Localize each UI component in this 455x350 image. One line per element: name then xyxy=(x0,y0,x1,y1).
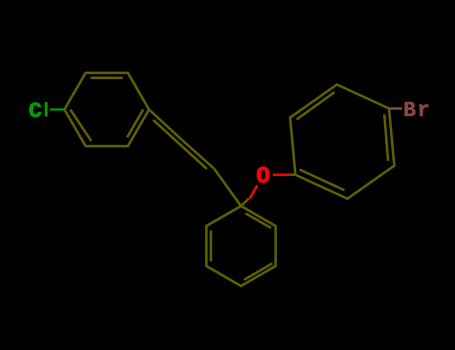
vinyl chain: ring1 C4 to C1 xyxy=(149,110,241,207)
svg-text:O: O xyxy=(256,163,270,189)
svg-text:Br: Br xyxy=(403,100,431,123)
Cl-C bond (green) xyxy=(50,108,64,110)
svg-text:C: C xyxy=(29,99,42,124)
double bond C1=C2 xyxy=(182,140,215,169)
O-C bonds (red) xyxy=(250,185,257,198)
bond C2 to ring2 top xyxy=(214,169,241,207)
benzene ring 1 (chlorophenyl) xyxy=(64,73,149,146)
ring 3 inner double bond lines xyxy=(300,170,345,191)
benzene ring 2 (central phenyl) xyxy=(206,206,275,286)
benzene ring 3 (bromophenyl) xyxy=(290,85,394,199)
ring 2 inner double bond lines xyxy=(210,231,213,262)
ring 1 inner double bond lines xyxy=(91,77,123,80)
Br-C bond (maroon) xyxy=(389,107,402,110)
